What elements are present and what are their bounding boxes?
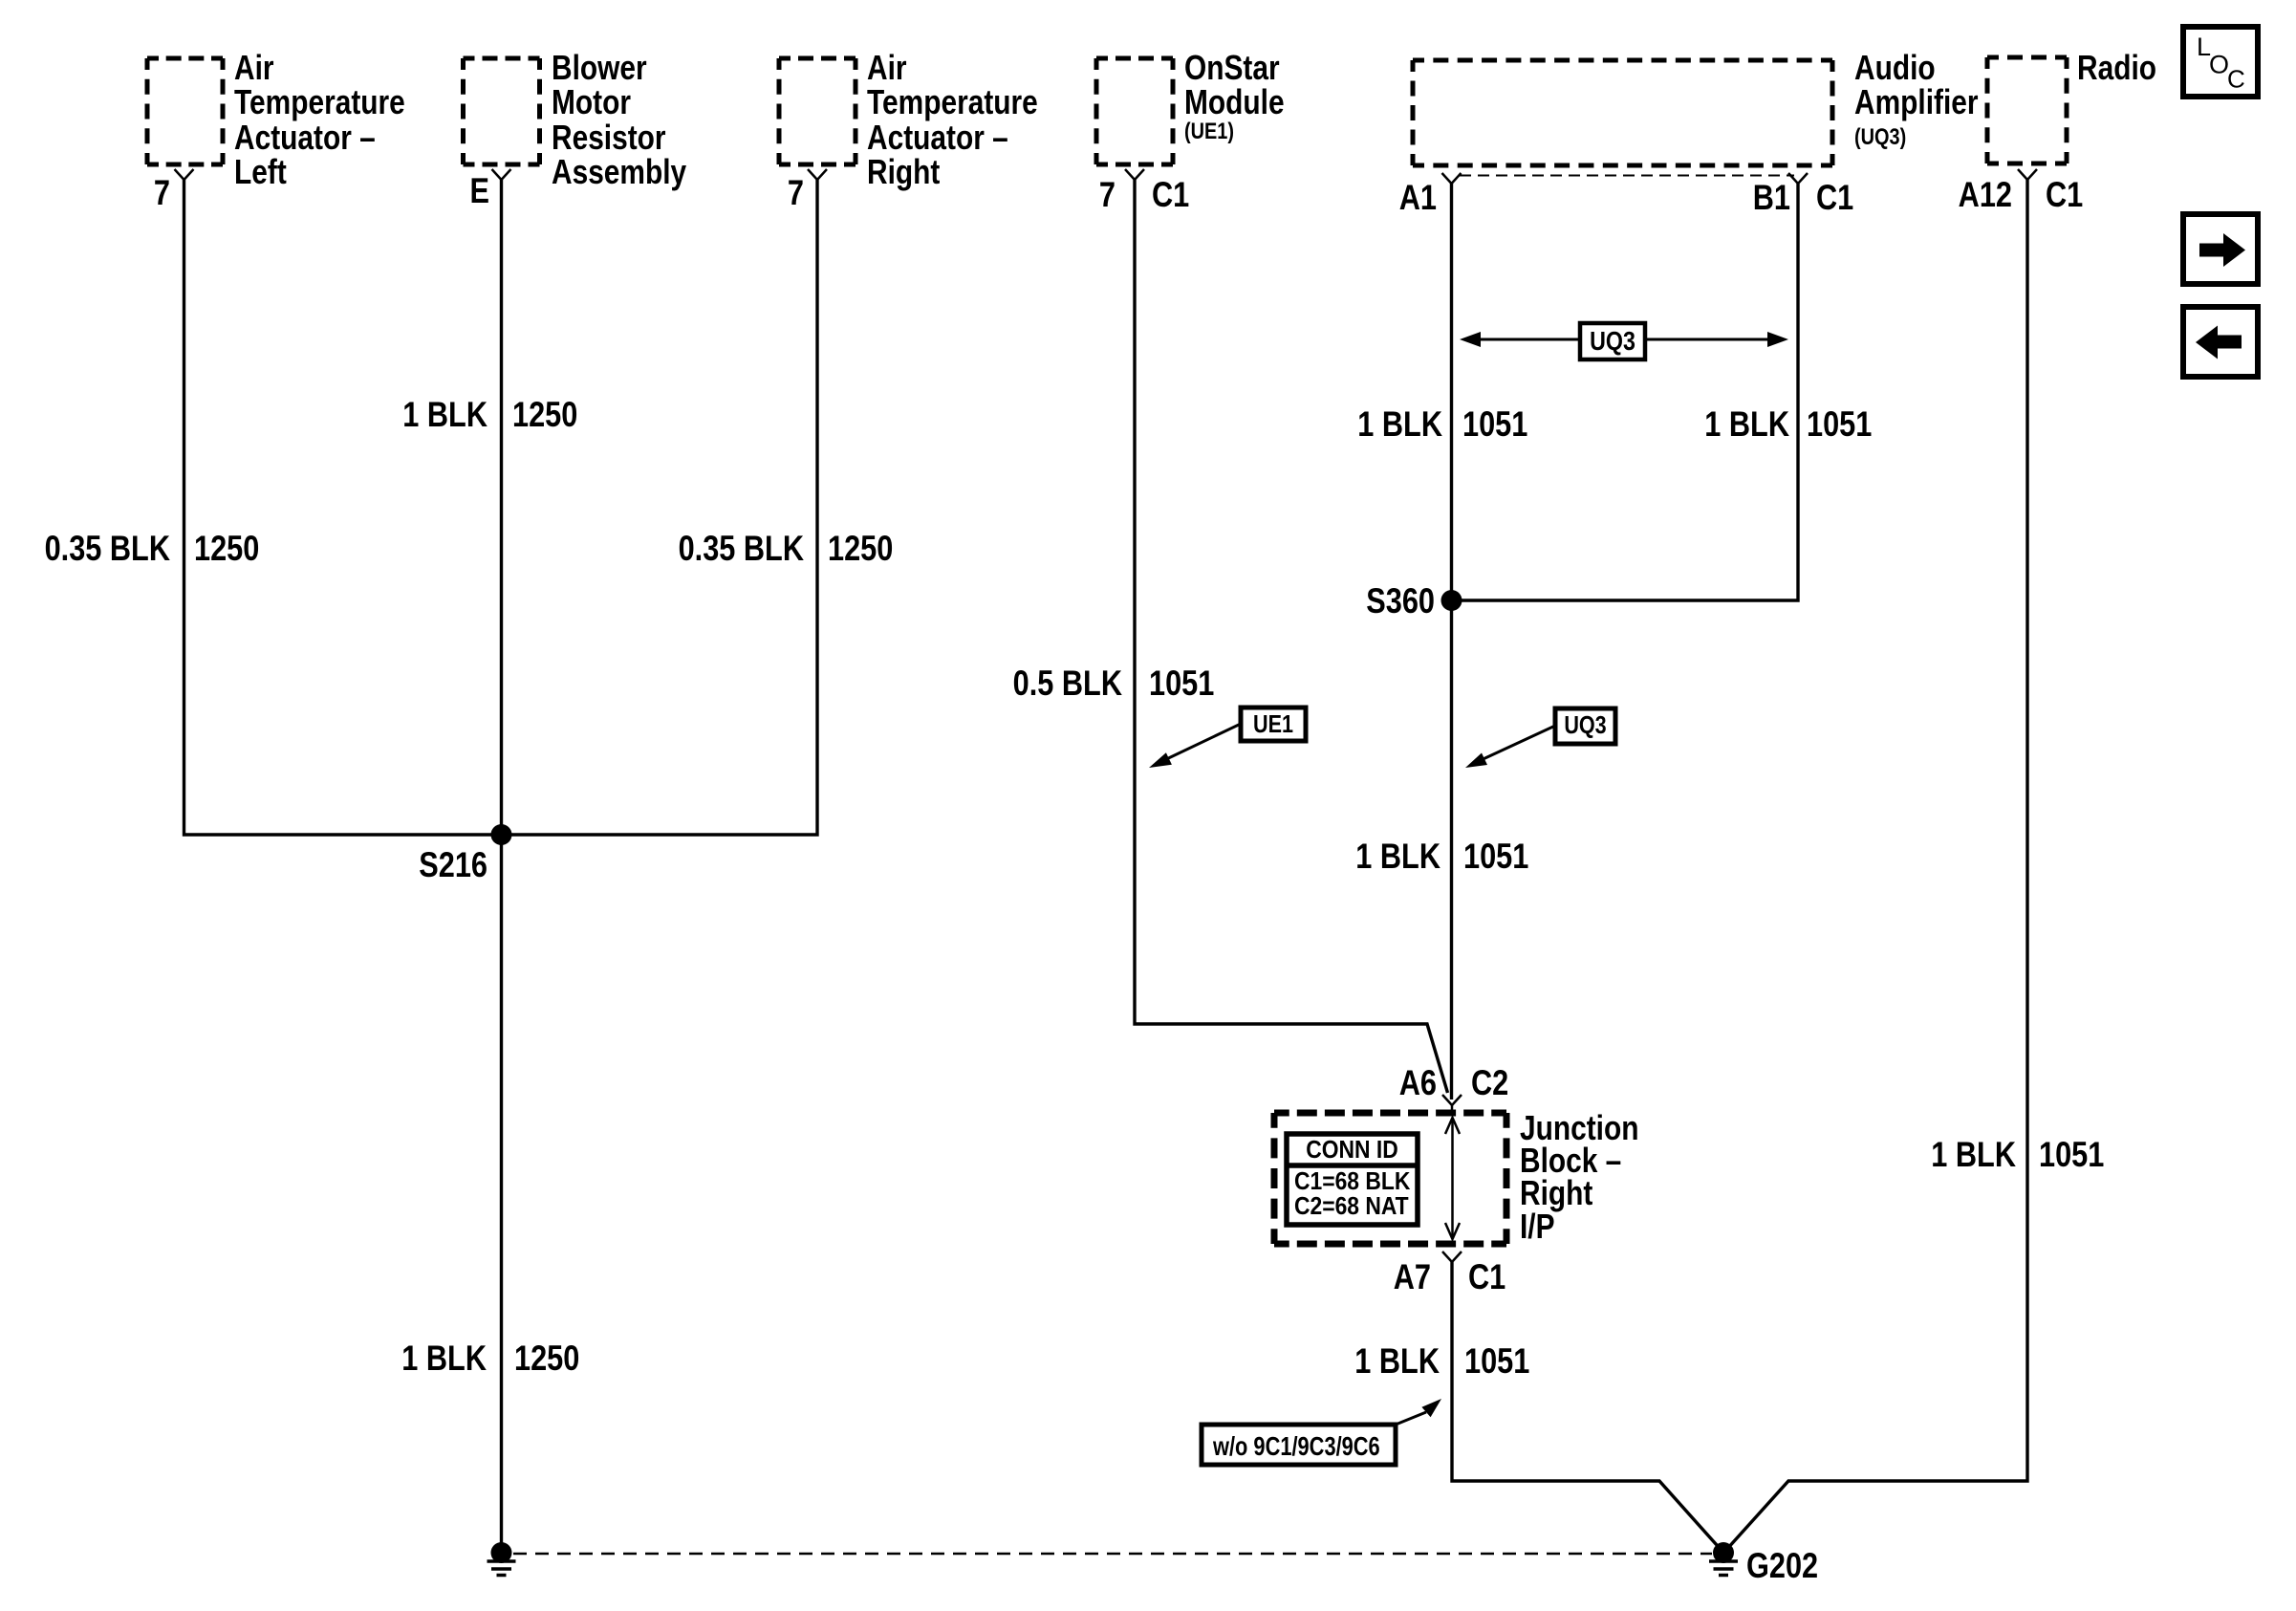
wire: Radio A12 down to G202 [1727, 180, 2028, 1550]
connector symbol A7 [1442, 1252, 1462, 1262]
svg-text:(UE1): (UE1) [1184, 118, 1234, 143]
ground symbol left (S216 ground) [487, 1542, 516, 1576]
svg-text:S216: S216 [419, 845, 487, 884]
wire label 0.35 BLK 1250 (right) [679, 529, 894, 568]
callout UE1 with arrow [1149, 708, 1306, 768]
svg-text:Audio: Audio [1854, 49, 1936, 87]
connector symbol (Audio Amplifier pin A1) [1442, 173, 1462, 184]
svg-text:1 BLK: 1 BLK [402, 395, 487, 434]
connector symbol (Audio Amplifier pin B1) [1788, 173, 1808, 184]
svg-text:7: 7 [1099, 175, 1116, 214]
svg-text:I/P: I/P [1520, 1208, 1555, 1246]
svg-text:S360: S360 [1366, 581, 1435, 620]
svg-text:1051: 1051 [2039, 1135, 2104, 1174]
svg-text:1 BLK: 1 BLK [1355, 837, 1440, 876]
svg-text:7: 7 [788, 173, 804, 212]
wire: junction block A7 down to G202 [1452, 1262, 1721, 1550]
component box: Air Temperature Actuator - Left [147, 56, 223, 61]
svg-text:(UQ3): (UQ3) [1854, 123, 1906, 149]
svg-text:Blower: Blower [552, 49, 647, 87]
dashed ground bus between grounds [513, 1553, 1712, 1556]
svg-text:A6: A6 [1399, 1063, 1437, 1102]
callout UQ3 with arrow [1465, 708, 1615, 768]
connector pin A12 C1 (Radio) [1959, 175, 2084, 214]
svg-text:1 BLK: 1 BLK [401, 1339, 487, 1378]
svg-text:Air: Air [867, 49, 907, 87]
connector symbol A6 [1442, 1095, 1462, 1113]
svg-text:Assembly: Assembly [552, 153, 687, 191]
connector pin B1 C1 (Audio Amplifier) [1753, 178, 1854, 217]
svg-text:0.35 BLK: 0.35 BLK [679, 529, 805, 568]
wire label 1 BLK 1051 (B1) [1704, 404, 1872, 444]
svg-text:Motor: Motor [552, 83, 631, 121]
component box: OnStar Module (UE1) [1096, 56, 1173, 61]
svg-text:B1: B1 [1753, 178, 1790, 217]
svg-text:7: 7 [154, 173, 170, 212]
svg-text:C1: C1 [1816, 178, 1853, 217]
connector symbol (Radio pin A12) [2018, 169, 2037, 180]
svg-text:C1: C1 [1468, 1257, 1505, 1296]
svg-text:C2: C2 [1471, 1063, 1508, 1102]
svg-text:Temperature: Temperature [867, 83, 1038, 121]
svg-text:Left: Left [234, 153, 287, 191]
component box: Audio Amplifier (UQ3) [1413, 58, 1832, 63]
wire label 1 BLK 1250 (bottom left) [401, 1339, 579, 1378]
svg-text:C1: C1 [2046, 175, 2083, 214]
wire label 1 BLK 1051 (A1) [1357, 404, 1527, 444]
splice S360 [1441, 590, 1462, 611]
svg-text:Temperature: Temperature [234, 83, 405, 121]
label: Air Temperature Actuator - Left [234, 49, 405, 191]
wire label 0.35 BLK 1250 (left) [45, 529, 260, 568]
wire: Audio Amp B1 down and over to S360 [1452, 184, 1799, 600]
UQ3 range double arrow [1460, 323, 1788, 359]
label: Audio Amplifier (UQ3) [1854, 49, 1979, 149]
svg-text:A12: A12 [1959, 175, 2012, 214]
svg-text:UQ3: UQ3 [1590, 327, 1635, 356]
svg-text:OnStar: OnStar [1184, 49, 1280, 87]
component box: Blower Motor Resistor Assembly [464, 56, 540, 61]
svg-text:UQ3: UQ3 [1564, 711, 1606, 739]
legend box: right arrow [2183, 214, 2258, 284]
svg-text:1250: 1250 [514, 1339, 579, 1378]
svg-text:C: C [2227, 65, 2245, 94]
svg-text:Actuator –: Actuator – [867, 119, 1008, 157]
svg-text:C1: C1 [1152, 175, 1189, 214]
ground G202 [1709, 1542, 1818, 1586]
svg-text:1 BLK: 1 BLK [1704, 404, 1789, 444]
connector symbol (Air Temp Actuator Left pin 7) [175, 169, 194, 180]
svg-text:C2=68 NAT: C2=68 NAT [1294, 1193, 1409, 1221]
connector pin A7 C1 (Junction Block) [1394, 1257, 1506, 1296]
svg-text:1051: 1051 [1463, 837, 1528, 876]
junction block internal double arrow [1445, 1118, 1460, 1239]
svg-text:1 BLK: 1 BLK [1357, 404, 1442, 444]
svg-text:1051: 1051 [1464, 1341, 1529, 1381]
svg-text:0.35 BLK: 0.35 BLK [45, 529, 171, 568]
wire label 1 BLK 1051 (below S360) [1355, 837, 1528, 876]
svg-text:Right: Right [867, 153, 940, 191]
svg-text:O: O [2209, 51, 2229, 79]
callout w/o 9C1/9C3/9C6 with arrow [1202, 1399, 1441, 1465]
connector symbol (Air Temp Actuator Right pin 7) [808, 169, 827, 180]
svg-text:Radio: Radio [2077, 49, 2156, 87]
svg-text:C1=68 BLK: C1=68 BLK [1294, 1168, 1411, 1196]
svg-text:1051: 1051 [1149, 664, 1214, 703]
wire label 0.5 BLK 1051 (OnStar) [1013, 664, 1215, 703]
label: Blower Motor Resistor Assembly [552, 49, 687, 191]
svg-text:E: E [470, 171, 489, 210]
wire label 1 BLK 1051 (Radio) [1931, 1135, 2104, 1174]
wire: Air Temp Left down, S216 tie bar, Air Temp Right down [184, 180, 818, 835]
svg-text:A7: A7 [1394, 1257, 1431, 1296]
label: OnStar Module (UE1) [1184, 49, 1285, 143]
svg-text:1 BLK: 1 BLK [1931, 1135, 2016, 1174]
svg-text:1250: 1250 [194, 529, 259, 568]
svg-text:1250: 1250 [828, 529, 893, 568]
svg-text:w/o 9C1/9C3/9C6: w/o 9C1/9C3/9C6 [1212, 1431, 1380, 1461]
legend box: left arrow [2183, 307, 2258, 377]
label: Air Temperature Actuator - Right [867, 49, 1038, 191]
splice S216 [491, 824, 512, 845]
svg-text:Amplifier: Amplifier [1854, 83, 1979, 121]
component box: Radio [1987, 55, 2067, 60]
svg-text:1051: 1051 [1807, 404, 1872, 444]
wire label 1 BLK 1250 (blower) [402, 395, 577, 434]
thin dashed connector line under Audio Amplifier [1460, 175, 1794, 177]
svg-text:1250: 1250 [512, 395, 577, 434]
svg-text:Air: Air [234, 49, 274, 87]
svg-text:Module: Module [1184, 83, 1285, 121]
svg-text:0.5 BLK: 0.5 BLK [1013, 664, 1123, 703]
svg-text:1051: 1051 [1462, 404, 1527, 444]
svg-text:A1: A1 [1399, 178, 1437, 217]
svg-text:CONN ID: CONN ID [1306, 1137, 1398, 1165]
svg-text:1 BLK: 1 BLK [1354, 1341, 1440, 1381]
wire: OnStar down and over to junction block A6 [1135, 180, 1448, 1093]
svg-text:G202: G202 [1746, 1546, 1818, 1585]
LOC legend box [2183, 27, 2258, 97]
connector symbol (Blower Motor Resistor pin E) [492, 169, 511, 180]
junction block dashed box [1274, 1110, 1506, 1117]
wire: Audio Amp A1 down through junction block [1450, 184, 1453, 1099]
connector symbol (OnStar pin 7) [1125, 169, 1144, 180]
svg-text:UE1: UE1 [1253, 710, 1293, 738]
component box: Air Temperature Actuator - Right [779, 56, 856, 61]
connector pin 7 C1 (OnStar) [1099, 175, 1189, 214]
label: Junction Block - Right I/P [1520, 1109, 1638, 1246]
svg-text:Actuator –: Actuator – [234, 119, 376, 157]
wire: Blower Motor Resistor E down to ground [500, 180, 503, 1553]
wire label 1 BLK 1051 (below A7) [1354, 1341, 1529, 1381]
CONN ID table [1287, 1134, 1418, 1225]
connector pin A6 C2 (Junction Block) [1399, 1063, 1509, 1102]
svg-text:Resistor: Resistor [552, 119, 666, 157]
